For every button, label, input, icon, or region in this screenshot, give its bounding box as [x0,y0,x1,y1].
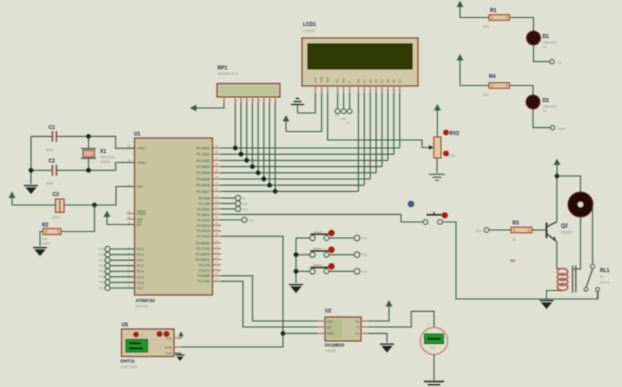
svg-text:LED-RED: LED-RED [543,105,558,109]
svg-text:P3.4/T0: P3.4/T0 [199,263,210,267]
svg-text:P10: P10 [99,247,105,251]
svg-text:P1.1: P1.1 [137,253,144,257]
svg-text:VEE: VEE [326,77,330,83]
svg-text:27: 27 [215,227,219,231]
svg-text:button: button [314,247,323,251]
svg-text:14: 14 [215,261,219,265]
svg-text:DHT11: DHT11 [121,359,136,364]
svg-text:D2: D2 [368,79,372,83]
svg-text:1k: 1k [513,237,517,241]
svg-text:P2.0/A8: P2.0/A8 [199,196,211,200]
svg-text:P3.6/WR: P3.6/WR [197,274,210,278]
svg-text:P0.6/AD6: P0.6/AD6 [196,184,210,188]
svg-text:RESPACK-8: RESPACK-8 [218,72,238,76]
svg-text:VSS: VSS [314,77,318,83]
svg-text:P0.2/AD2: P0.2/AD2 [196,159,210,163]
svg-text:DS18B20: DS18B20 [325,343,345,348]
svg-text:P2.2/A10: P2.2/A10 [197,207,210,211]
svg-text:P2.3/A11: P2.3/A11 [197,213,210,217]
svg-text:E: E [348,81,352,83]
svg-text:VDD: VDD [320,77,324,83]
svg-text:HUM-TEMP: HUM-TEMP [121,365,138,369]
svg-text:P1.3: P1.3 [137,264,144,268]
svg-text:MCS-51: MCS-51 [136,305,149,309]
svg-text:P0.5/AD5: P0.5/AD5 [196,177,210,181]
svg-text:U1: U1 [134,132,141,138]
svg-text:RW: RW [341,117,346,121]
svg-text:0.6W: 0.6W [42,242,49,246]
svg-text:26: 26 [215,221,219,225]
svg-text:VCC: VCC [327,319,334,323]
svg-text:10: 10 [215,239,219,243]
svg-text:16: 16 [215,272,219,276]
svg-text:P1.0: P1.0 [137,247,144,251]
svg-text:PSEN: PSEN [137,212,146,216]
svg-text:220: 220 [483,25,489,29]
svg-text:11: 11 [215,244,218,248]
svg-text:24: 24 [215,210,219,214]
svg-text:P13: P13 [362,237,368,241]
svg-text:18: 18 [127,158,131,162]
svg-text:RV2: RV2 [450,131,460,137]
svg-text:GND: GND [327,332,335,336]
svg-text:P35: P35 [476,229,482,233]
svg-text:DQ: DQ [327,325,332,329]
svg-text:35: 35 [215,169,219,173]
svg-text:19: 19 [127,144,131,148]
svg-text:DATA: DATA [165,345,172,349]
svg-text:29: 29 [127,209,131,213]
svg-text:10k: 10k [42,237,48,241]
svg-text:U2: U2 [325,309,332,315]
svg-text:D5: D5 [386,79,390,83]
svg-text:buz: buz [249,218,254,222]
svg-text:P14: P14 [362,253,368,257]
svg-text:10uF: 10uF [53,216,61,220]
svg-text:D1: D1 [362,79,366,83]
svg-text:12: 12 [215,250,219,254]
svg-text:22: 22 [215,199,219,203]
svg-text:P17: P17 [99,286,105,290]
svg-text:P15: P15 [99,275,105,279]
svg-text:D2: D2 [543,98,550,104]
svg-text:LED-RED: LED-RED [543,41,558,45]
svg-text:P15: P15 [362,270,368,274]
svg-text:X1: X1 [100,149,106,155]
svg-text:P11: P11 [99,253,105,257]
svg-text:GND: GND [166,352,172,356]
svg-text:10K: 10K [450,154,457,158]
svg-text:CK: CK [355,332,359,336]
svg-text:P3.7/RD: P3.7/RD [198,280,211,284]
svg-text:P22: P22 [243,207,249,211]
svg-text:39: 39 [215,144,219,148]
svg-text:R2: R2 [42,223,49,229]
svg-text:D6: D6 [392,79,396,83]
svg-text:P1.5: P1.5 [137,275,144,279]
svg-text:C3: C3 [53,192,60,198]
svg-text:30: 30 [127,215,131,219]
svg-text:2V: 2V [543,109,547,113]
svg-text:P2.6/A14: P2.6/A14 [197,229,210,233]
svg-text:alarm: alarm [558,127,566,131]
svg-text:P3.2/INT0: P3.2/INT0 [196,252,211,256]
svg-text:XTAL1: XTAL1 [137,147,147,151]
svg-text:P3.1/TXD: P3.1/TXD [196,247,211,251]
svg-text:13: 13 [215,255,219,259]
svg-text:P1.6: P1.6 [137,281,144,285]
svg-text:28: 28 [215,232,219,236]
svg-text:P2.1/A9: P2.1/A9 [199,202,211,206]
svg-text:RP1: RP1 [218,66,228,72]
svg-text:ALE: ALE [137,217,143,221]
svg-text:RST: RST [137,185,143,189]
svg-text:RS: RS [336,79,340,83]
svg-text:C1: C1 [49,125,56,131]
svg-text:P0.4/AD4: P0.4/AD4 [196,171,210,175]
svg-text:E: E [347,120,349,124]
svg-text:2V: 2V [543,45,547,49]
svg-text:37: 37 [215,156,219,160]
svg-text:BZ1: BZ1 [243,202,249,206]
svg-text:P2.7/A15: P2.7/A15 [197,235,210,239]
svg-text:2N2222: 2N2222 [561,231,573,235]
svg-text:D3: D3 [374,79,378,83]
svg-text:RL1: RL1 [600,268,610,274]
svg-text:volts: volts [430,346,436,350]
svg-text:XTAL2: XTAL2 [137,161,147,165]
svg-text:30pF: 30pF [46,148,54,152]
svg-text:RELAY: RELAY [600,281,610,285]
svg-text:31: 31 [127,220,131,224]
svg-text:21: 21 [215,194,219,198]
svg-text:33: 33 [215,181,219,185]
svg-text:button: button [314,230,323,234]
svg-text:P3.3/INT1: P3.3/INT1 [196,258,211,262]
svg-text:-: - [427,357,428,361]
svg-text:CRYSTAL: CRYSTAL [100,156,115,160]
svg-text:AT89C52: AT89C52 [136,298,156,303]
svg-text:RS: RS [335,114,339,118]
svg-text:12MHz: 12MHz [100,160,111,164]
svg-text:P1.7: P1.7 [137,286,144,290]
svg-text:15: 15 [215,266,219,270]
svg-text:R6: R6 [511,259,516,263]
svg-text:D1: D1 [543,34,550,40]
svg-text:P12: P12 [99,258,105,262]
svg-text:17: 17 [215,277,219,281]
svg-text:button: button [314,263,323,267]
svg-text:P1.2: P1.2 [137,259,144,263]
svg-text:P0.0/AD0: P0.0/AD0 [196,146,210,150]
svg-text:1-WIRE: 1-WIRE [325,349,336,353]
svg-text:P13: P13 [99,264,105,268]
svg-text:LCD1: LCD1 [303,22,316,28]
svg-text:32: 32 [215,187,219,191]
svg-text:R3: R3 [513,221,520,227]
svg-text:R4: R4 [489,74,496,80]
svg-text:P0.3/AD3: P0.3/AD3 [196,165,210,169]
svg-text:D7: D7 [398,79,402,83]
svg-text:30pF: 30pF [46,182,54,186]
svg-text:P3.0/RXD: P3.0/RXD [196,241,211,245]
svg-text:LM016L: LM016L [303,29,316,33]
svg-text:P1.4: P1.4 [137,270,144,274]
svg-text:U5: U5 [122,323,129,329]
svg-text:FA: FA [558,60,562,64]
svg-text:D0: D0 [357,79,361,83]
svg-text:P3.5/T1: P3.5/T1 [199,269,210,273]
svg-text:36: 36 [215,162,219,166]
svg-text:P0.7/AD7: P0.7/AD7 [196,190,210,194]
svg-text:P0.1/AD1: P0.1/AD1 [196,153,210,157]
svg-text:D4: D4 [380,79,384,83]
svg-text:RW: RW [342,78,346,83]
svg-text:+: + [427,323,429,327]
svg-text:P2.5/A13: P2.5/A13 [197,224,210,228]
svg-text:38: 38 [215,150,219,154]
svg-text:Q2: Q2 [561,224,568,230]
svg-text:220: 220 [483,93,489,97]
svg-text:P16: P16 [99,281,105,285]
svg-text:R1: R1 [490,8,497,14]
svg-text:P14: P14 [99,270,105,274]
svg-text:VCC: VCC [166,336,172,340]
svg-text:P2.4/A12: P2.4/A12 [197,218,210,222]
svg-text:25: 25 [215,216,219,220]
svg-text:34: 34 [215,175,219,179]
svg-text:C2: C2 [49,159,56,165]
svg-text:23: 23 [215,205,219,209]
